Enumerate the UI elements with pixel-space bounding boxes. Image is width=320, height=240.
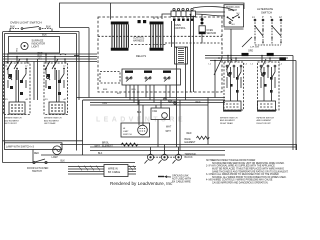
svg-text:AND ELEMENT: AND ELEMENT [220, 119, 236, 122]
svg-text:LAMP WITH SWITCH +3: LAMP WITH SWITCH +3 [6, 146, 35, 149]
wire control board drops [190, 14, 195, 92]
svg-text:2- IF ANY ORIGINAL WIRE AS SUP: 2- IF ANY ORIGINAL WIRE AS SUPPLIED WITH… [206, 165, 275, 168]
svg-text:SWITCH: SWITCH [32, 170, 42, 173]
wire relay drops to buses [77, 85, 226, 105]
svg-text:INFINITE SWITCH: INFINITE SWITCH [257, 117, 275, 119]
connector block 2 [150, 22, 164, 51]
svg-text:CONTROL: CONTROL [174, 27, 186, 30]
svg-text:1- DISCONNECT RANGE FROM POWER: 1- DISCONNECT RANGE FROM POWER [212, 159, 256, 162]
infinite switch right rear [224, 59, 244, 111]
wire second bus [5, 33, 77, 35]
transformer T1 [175, 47, 188, 64]
node element terminal labels [5, 98, 67, 101]
alternate switch [242, 7, 282, 47]
wire top bus [60, 3, 245, 28]
svg-text:BLK: BLK [42, 33, 47, 37]
wire plug to door lock [193, 7, 234, 16]
svg-text:YEL: YEL [172, 102, 177, 104]
wire top corner to control harness [110, 3, 112, 20]
svg-text:SWITCH: SWITCH [261, 11, 272, 15]
oven control plug U1 [171, 8, 196, 21]
svg-text:OVEN: OVEN [207, 30, 214, 32]
motor M1 [138, 125, 148, 135]
svg-text:FAN: FAN [103, 102, 108, 105]
broil element [95, 143, 139, 148]
svg-text:BLK: BLK [137, 112, 142, 114]
control area dashed box [98, 17, 222, 92]
infinite switch left rear [43, 63, 68, 115]
svg-text:BLOCK: BLOCK [185, 156, 194, 159]
svg-text:4- MIS-WIRED CONTROLS / WIRING: 4- MIS-WIRED CONTROLS / WIRING PROBLEMS … [206, 179, 273, 182]
connector small plugs [138, 20, 141, 23]
svg-text:INFINITE SWITCH: INFINITE SWITCH [44, 118, 62, 120]
svg-text:DOOR LOCK: DOOR LOCK [226, 7, 240, 9]
surface indicator light [9, 37, 60, 54]
wire plug to connector block 2 [154, 14, 171, 19]
ground link note [158, 174, 191, 183]
node relay wire labels [103, 89, 136, 95]
infinite switch right front [258, 59, 280, 111]
wire right feed rows [205, 55, 296, 150]
svg-text:SAME THICKNESS AND TEMPERATURE: SAME THICKNESS AND TEMPERATURE RATING OR… [212, 170, 289, 173]
door actuated switch [3, 159, 136, 173]
svg-text:BX CABLE WIRE: BX CABLE WIRE [172, 180, 191, 183]
watermark [96, 117, 186, 124]
svg-text:INFINITE SWITCH: INFINITE SWITCH [4, 118, 22, 120]
svg-text:AND ELEMENT: AND ELEMENT [44, 119, 60, 122]
svg-text:LEFT REAR: LEFT REAR [44, 122, 56, 125]
svg-text:RED: RED [196, 102, 201, 104]
wire left feeders [2, 32, 4, 163]
svg-text:BLK: BLK [10, 25, 15, 29]
door lock switch [224, 5, 244, 62]
infinite switch left front [4, 63, 31, 115]
svg-text:3- CHECK ALL WIRES PRIOR TO RE: 3- CHECK ALL WIRES PRIOR TO RECONNECTION… [206, 173, 279, 176]
svg-text:BLK: BLK [61, 161, 66, 163]
svg-text:INFINITE SWITCH: INFINITE SWITCH [220, 117, 238, 119]
svg-text:SOURCE BEFORE SERVICING UNIT O: SOURCE BEFORE SERVICING UNIT OR REMOVING… [212, 163, 285, 165]
svg-text:AND ELEMENT: AND ELEMENT [257, 119, 273, 122]
svg-text:Rendered by LeadVenture, Inc: Rendered by LeadVenture, Inc [110, 181, 173, 186]
svg-text:BLU: BLU [117, 93, 121, 95]
svg-text:LIGHT: LIGHT [32, 46, 40, 49]
svg-text:N: N [270, 16, 272, 19]
svg-text:SWITCH: SWITCH [123, 134, 132, 136]
svg-text:FAN: FAN [153, 110, 158, 113]
svg-text:RELAYS: RELAYS [136, 54, 146, 58]
svg-text:MUST BE REPLACED IT MUST BE RE: MUST BE REPLACED IT MUST BE REPLACED WIT… [212, 168, 284, 171]
svg-text:WHT: WHT [166, 127, 172, 129]
svg-text:RED: RED [34, 153, 39, 155]
notice text block [206, 159, 289, 184]
svg-text:WHT: WHT [166, 131, 172, 133]
wire lamp feed [3, 140, 83, 142]
svg-text:CONTROL: CONTROL [133, 38, 145, 40]
svg-text:BRN: BRN [103, 89, 108, 91]
wire lower buses [41, 145, 297, 156]
bake element [185, 133, 210, 144]
svg-text:2-3P 45W: 2-3P 45W [250, 46, 259, 48]
svg-text:SENSOR: SENSOR [207, 33, 217, 35]
svg-text:RED: RED [187, 133, 192, 135]
svg-text:SOURCE. ALL WIRES PRIOR TO DIS: SOURCE. ALL WIRES PRIOR TO DISCONNECTION… [212, 176, 287, 179]
oven cavity box [83, 98, 225, 156]
node left feed labels [38, 52, 43, 60]
svg-text:BLK: BLK [98, 153, 103, 155]
svg-text:HARNESS: HARNESS [133, 40, 145, 43]
lamp with switch box [5, 143, 63, 163]
svg-text:GRD: GRD [248, 50, 253, 52]
wire left switch feed rows [3, 53, 97, 100]
wire dashed partition [98, 35, 222, 37]
svg-text:RIGHT FRONT: RIGHT FRONT [257, 123, 272, 125]
svg-text:OVEN LIGHT SWITCH: OVEN LIGHT SWITCH [10, 21, 42, 25]
relay board dashed aux box [100, 72, 120, 84]
fan box [151, 102, 201, 133]
svg-text:SWITCH: SWITCH [228, 10, 237, 12]
svg-text:BX CABLE: BX CABLE [108, 171, 121, 174]
wire in bx cable box [68, 165, 136, 177]
relay box [122, 69, 181, 85]
svg-text:RIGHT REAR: RIGHT REAR [220, 122, 233, 125]
oven sensor [199, 14, 205, 44]
svg-text:BAKE: BAKE [185, 138, 192, 141]
svg-text:LIMIT: LIMIT [123, 131, 129, 133]
connector block 1 (control harness) [111, 22, 129, 51]
svg-text:AND ELEMENT: AND ELEMENT [4, 119, 20, 122]
node control harness label [133, 38, 145, 43]
svg-text:CAUSE IMPROPER AND DANGEROUS O: CAUSE IMPROPER AND DANGEROUS OPERATION. [212, 182, 269, 185]
svg-text:NO: NO [232, 24, 236, 26]
terminal block [145, 145, 198, 164]
svg-text:LEADVENTURE: LEADVENTURE [96, 117, 186, 124]
svg-text:ELEMENT: ELEMENT [185, 142, 196, 144]
wire transformer secondary drops [177, 64, 186, 100]
svg-text:ORG: ORG [131, 89, 136, 91]
svg-text:LEFT FRONT: LEFT FRONT [4, 123, 18, 125]
node right feed labels [242, 53, 249, 56]
svg-text:LAMP: LAMP [52, 156, 59, 159]
lamp [52, 146, 62, 159]
oven light switch [3, 21, 60, 32]
wire dashed sub-board partition [165, 42, 222, 44]
wire transformer primary feed [172, 21, 175, 47]
svg-text:BLK: BLK [46, 25, 51, 29]
